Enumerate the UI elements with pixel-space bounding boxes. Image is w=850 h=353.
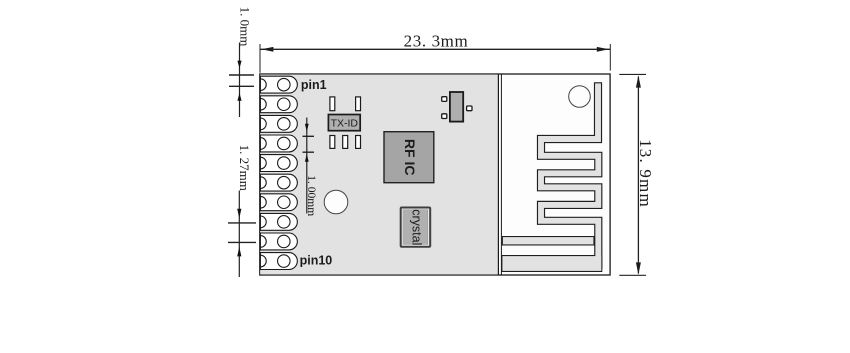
pin 9 pad bbox=[260, 233, 297, 250]
1.27mm tick upper bbox=[228, 222, 256, 224]
1.00mm tick upper bbox=[303, 135, 315, 137]
antenna ground stub bar outline bbox=[502, 236, 595, 246]
pin 2 pad bbox=[260, 96, 297, 113]
pin 5 hole bbox=[278, 157, 291, 170]
pin 1 hole bbox=[278, 78, 291, 91]
vertical dimension line bbox=[637, 77, 639, 274]
pin 3 castellation arc bbox=[260, 118, 266, 130]
pin 1 castellation arc bbox=[260, 79, 266, 91]
pin 4 pad bbox=[260, 135, 297, 152]
up arrowhead bbox=[636, 75, 641, 87]
pin 6 pad bbox=[260, 174, 297, 191]
antenna bottom block fill bbox=[502, 256, 601, 271]
svg-text:23. 3mm: 23. 3mm bbox=[404, 32, 469, 51]
pin 6 hole bbox=[278, 176, 291, 189]
svg-text:RF IC: RF IC bbox=[402, 139, 418, 176]
antenna hole circle bbox=[569, 86, 591, 108]
1.27mm up arrowhead bbox=[237, 247, 241, 257]
pin 8 hole bbox=[278, 216, 291, 229]
transistor Q1 pad right bbox=[467, 106, 472, 111]
1.00mm down arrowhead bbox=[305, 124, 309, 132]
left arrowhead bbox=[261, 47, 273, 52]
small pad below TX-ID (2) bbox=[343, 136, 348, 149]
pin 9 castellation arc bbox=[260, 236, 266, 248]
svg-text:crystal: crystal bbox=[410, 209, 424, 245]
body/antenna boundary line 2 bbox=[500, 74, 502, 275]
pin pads (10 castellated pins) bbox=[260, 76, 297, 269]
pin 1 pad bbox=[260, 76, 297, 93]
transistor Q1 pad bottom-left bbox=[442, 114, 447, 119]
pin 2 hole bbox=[278, 98, 291, 111]
pin 2 castellation arc bbox=[260, 98, 266, 110]
1.27mm leader upper bbox=[238, 191, 240, 278]
pin 10 castellation arc bbox=[260, 255, 266, 267]
transistor Q1 body bbox=[450, 92, 463, 122]
dimension: 1.00mm leader upper bbox=[306, 118, 308, 214]
body/antenna boundary line 1 bbox=[497, 74, 499, 275]
PCB meander antenna trace: gray core bbox=[541, 83, 598, 270]
pin 3 pad bbox=[260, 115, 297, 132]
RF IC chip U1 bbox=[384, 132, 434, 183]
svg-text:1. 27mm: 1. 27mm bbox=[237, 145, 252, 191]
mounting hole (big circle) bbox=[324, 190, 348, 214]
bottom extension tick bbox=[619, 274, 646, 276]
right extension line bbox=[609, 44, 611, 71]
pin 10 hole bbox=[278, 255, 291, 268]
svg-text:1. 0mm: 1. 0mm bbox=[237, 7, 252, 47]
pin 4 castellation arc bbox=[260, 138, 266, 150]
1.0mm up arrowhead bbox=[237, 93, 241, 101]
small pad above TX-ID (left) bbox=[330, 97, 335, 111]
crystal inner body bbox=[403, 210, 428, 245]
pin 5 pad bbox=[260, 155, 297, 172]
1.00mm tick lower bbox=[303, 151, 315, 153]
1.0mm leader upper bbox=[239, 43, 241, 118]
transistor Q1 pad top-left bbox=[442, 97, 447, 102]
pin 10 pad bbox=[260, 253, 297, 270]
pin 5 castellation arc bbox=[260, 157, 266, 169]
pin 7 hole bbox=[278, 196, 291, 209]
TX-ID component bbox=[328, 115, 360, 131]
1.0mm tick upper bbox=[229, 74, 254, 76]
pin 4 hole bbox=[278, 137, 291, 150]
svg-text:pin1: pin1 bbox=[301, 78, 327, 92]
PCB main body (ground plane area) bbox=[260, 75, 498, 275]
1.27mm tick lower bbox=[228, 241, 256, 243]
1.27mm down arrowhead bbox=[237, 209, 241, 219]
antenna bottom block outline bbox=[501, 255, 602, 272]
pin 8 pad bbox=[260, 213, 297, 230]
crystal Y1 outer frame bbox=[400, 207, 432, 248]
small pad below TX-ID (3) bbox=[356, 136, 361, 149]
down arrowhead bbox=[636, 262, 641, 274]
right arrowhead bbox=[597, 47, 609, 52]
crystal inner light line bbox=[402, 209, 428, 245]
1.0mm tick lower bbox=[229, 85, 254, 87]
svg-text:TX-ID: TX-ID bbox=[331, 117, 359, 129]
pin 7 pad bbox=[260, 194, 297, 211]
dimension line 23.3mm bbox=[260, 48, 610, 50]
left extension line bbox=[259, 44, 261, 73]
antenna ground stub bar fill bbox=[503, 237, 594, 244]
1.00mm up arrowhead bbox=[305, 154, 309, 162]
PCB meander antenna trace: outline bbox=[541, 82, 598, 269]
svg-text:1. 00mm: 1. 00mm bbox=[305, 175, 317, 216]
small pad below TX-ID (1) bbox=[330, 136, 335, 149]
top extension tick bbox=[619, 73, 646, 75]
pin 9 hole bbox=[278, 235, 291, 248]
PCB module body outline bbox=[260, 74, 610, 275]
pin 6 castellation arc bbox=[260, 177, 266, 189]
1.0mm down arrowhead bbox=[237, 61, 241, 69]
small pad above TX-ID (right) bbox=[356, 97, 361, 111]
pin 3 hole bbox=[278, 118, 291, 131]
pin 8 castellation arc bbox=[260, 216, 266, 228]
pin 7 castellation arc bbox=[260, 196, 266, 208]
svg-text:pin10: pin10 bbox=[300, 254, 333, 268]
